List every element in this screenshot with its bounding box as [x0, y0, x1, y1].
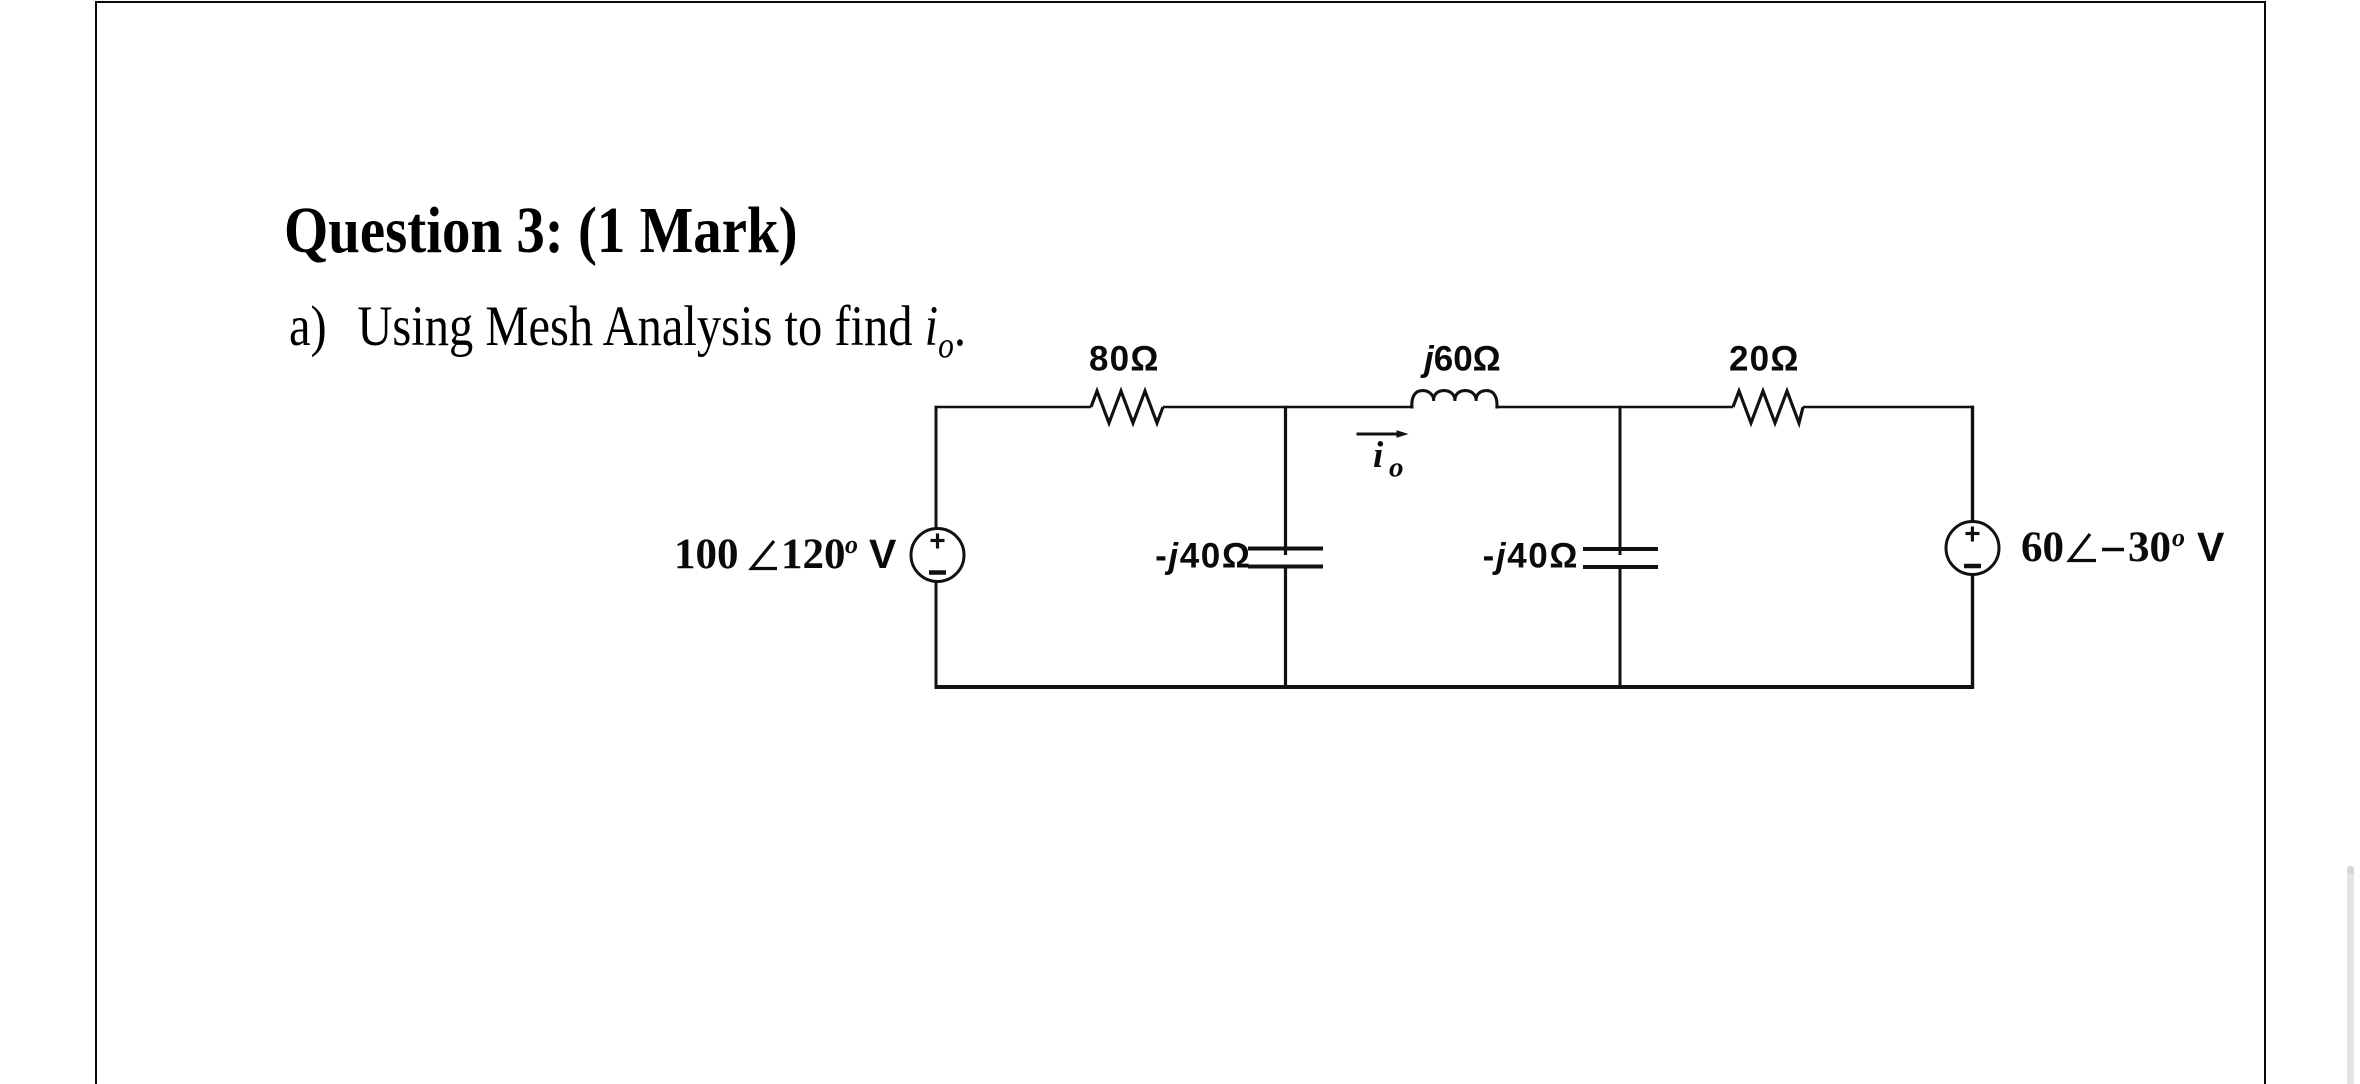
label io current [1373, 435, 1404, 484]
wire middle vertical 2 lower [1619, 567, 1622, 689]
svg-text:80Ω: 80Ω [1089, 340, 1160, 379]
resistor 80Ω zigzag [1091, 391, 1163, 423]
wire middle vertical 2 upper [1619, 406, 1622, 555]
svg-text:30: 30 [2128, 524, 2171, 571]
wire right vertical upper [1971, 406, 1974, 522]
svg-text:i: i [1373, 435, 1384, 476]
wire right vertical lower [1971, 575, 1974, 689]
scrollbar thumb [2347, 866, 2354, 1084]
svg-text:60: 60 [2021, 524, 2064, 571]
wire left vertical upper [935, 406, 938, 529]
capacitor C1 -j40Ω plates [1248, 549, 1323, 567]
current arrow io [1357, 430, 1409, 438]
svg-text:o: o [2172, 523, 2185, 552]
svg-text:100: 100 [674, 531, 739, 578]
svg-text:-j40Ω: -j40Ω [1155, 537, 1251, 576]
svg-text:120: 120 [781, 531, 846, 578]
svg-text:V: V [869, 531, 897, 577]
wire top-right segment [1803, 406, 1974, 409]
svg-text:V: V [2197, 524, 2225, 570]
wire top-left segment [935, 406, 1092, 409]
wire middle vertical 1 lower [1284, 567, 1287, 689]
label 100∠120°V value [674, 530, 897, 578]
label 60∠-30°V value [2021, 523, 2225, 571]
voltage source VS2 60∠-30°V [1946, 522, 1999, 575]
wire bottom [935, 685, 1975, 689]
wire top segment 80Ω to inductor [1163, 406, 1412, 409]
resistor 20Ω zigzag [1733, 391, 1803, 423]
svg-text:o: o [845, 530, 858, 559]
wire left vertical lower [935, 582, 938, 689]
voltage source VS1 100∠120°V [911, 529, 964, 582]
subtitle: a) Using Mesh Analysis to find io. [289, 294, 966, 367]
wire middle vertical 1 upper [1284, 406, 1287, 555]
svg-text:o: o [1389, 452, 1404, 484]
title: Question 3: (1 Mark) [284, 193, 798, 269]
svg-text:j60Ω: j60Ω [1420, 340, 1501, 379]
svg-text:-j40Ω: -j40Ω [1483, 537, 1579, 576]
capacitor C2 -j40Ω plates [1583, 549, 1658, 567]
wire top segment inductor to 20Ω [1497, 406, 1733, 409]
inductor j60Ω coil [1412, 391, 1497, 409]
svg-text:20Ω: 20Ω [1729, 340, 1800, 379]
